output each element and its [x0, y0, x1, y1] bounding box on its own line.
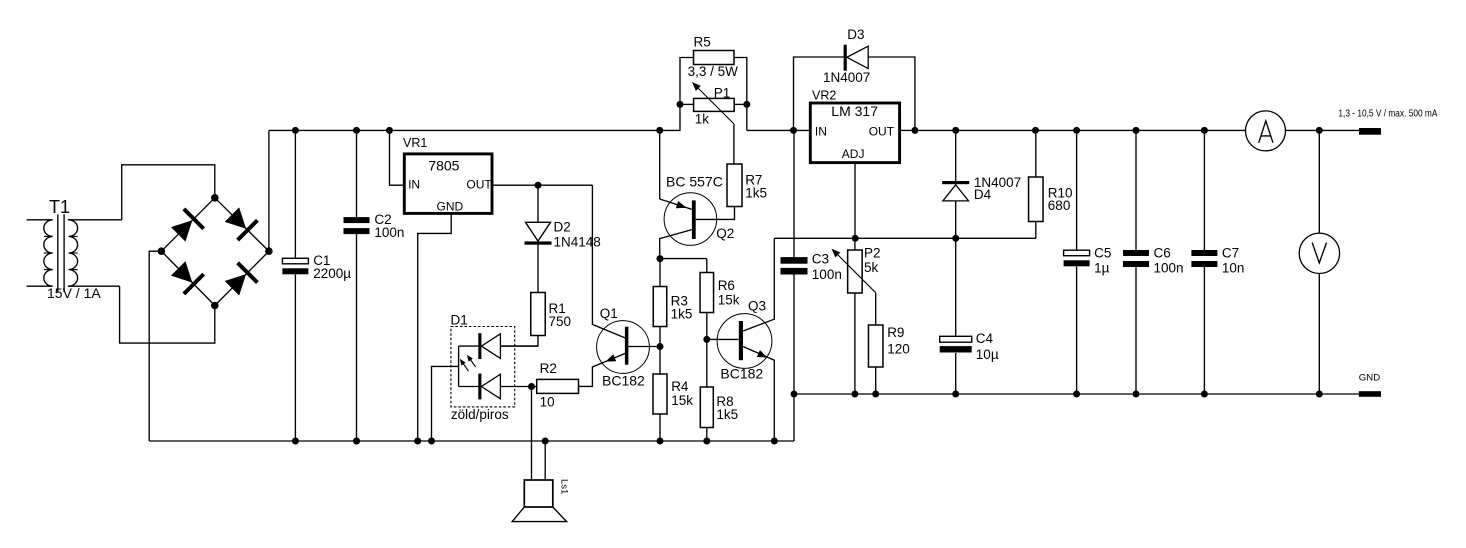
svg-text:IN: IN — [408, 178, 420, 192]
svg-text:Q2: Q2 — [716, 226, 734, 241]
svg-text:P2: P2 — [864, 245, 881, 260]
svg-text:750: 750 — [549, 314, 572, 329]
svg-text:1N4148: 1N4148 — [554, 235, 601, 250]
svg-text:D2: D2 — [554, 220, 571, 235]
svg-text:Q3: Q3 — [748, 299, 766, 314]
svg-text:10: 10 — [540, 395, 555, 410]
svg-text:680: 680 — [1048, 198, 1071, 213]
svg-text:15k: 15k — [718, 292, 740, 307]
svg-text:7805: 7805 — [428, 157, 459, 173]
svg-text:OUT: OUT — [869, 125, 895, 139]
svg-text:BC182: BC182 — [602, 373, 645, 389]
svg-text:100n: 100n — [374, 225, 404, 240]
svg-text:D3: D3 — [847, 27, 864, 42]
svg-text:C6: C6 — [1154, 246, 1171, 261]
svg-text:R4: R4 — [671, 379, 689, 394]
svg-text:1k5: 1k5 — [716, 407, 738, 422]
svg-text:LM 317: LM 317 — [831, 103, 878, 119]
svg-text:BC 557C: BC 557C — [666, 174, 723, 190]
svg-text:100n: 100n — [812, 267, 842, 282]
svg-text:D4: D4 — [974, 187, 992, 202]
svg-text:1,3 - 10,5 V / max. 500 mA: 1,3 - 10,5 V / max. 500 mA — [1338, 107, 1437, 119]
svg-text:Ls1: Ls1 — [559, 479, 570, 494]
svg-text:VR2: VR2 — [812, 89, 836, 103]
svg-text:1k5: 1k5 — [745, 185, 767, 200]
svg-text:100n: 100n — [1154, 260, 1184, 275]
svg-text:GND: GND — [437, 199, 464, 213]
svg-text:5k: 5k — [864, 260, 879, 275]
svg-text:10µ: 10µ — [976, 347, 999, 362]
svg-text:P1: P1 — [714, 85, 731, 100]
svg-text:R2: R2 — [540, 361, 557, 376]
svg-text:D1: D1 — [451, 313, 468, 328]
svg-text:15k: 15k — [671, 393, 693, 408]
svg-text:1k5: 1k5 — [671, 307, 693, 322]
svg-text:10n: 10n — [1222, 260, 1245, 275]
svg-text:Q1: Q1 — [600, 306, 618, 321]
svg-text:C4: C4 — [976, 331, 994, 346]
svg-text:VR1: VR1 — [403, 136, 427, 150]
svg-text:BC182: BC182 — [720, 366, 763, 382]
svg-text:C5: C5 — [1094, 246, 1111, 261]
svg-text:C7: C7 — [1222, 246, 1239, 261]
svg-text:T1: T1 — [49, 197, 70, 217]
svg-text:1µ: 1µ — [1094, 260, 1110, 275]
svg-text:R9: R9 — [887, 325, 904, 340]
svg-text:R5: R5 — [694, 34, 711, 49]
svg-text:OUT: OUT — [466, 178, 492, 192]
svg-text:120: 120 — [887, 341, 910, 356]
svg-text:1N4007: 1N4007 — [823, 70, 870, 85]
svg-text:GND: GND — [1359, 373, 1380, 384]
svg-text:IN: IN — [815, 125, 827, 139]
svg-text:C3: C3 — [812, 251, 829, 266]
svg-text:1k: 1k — [695, 111, 710, 126]
svg-text:15V / 1A: 15V / 1A — [47, 285, 101, 301]
svg-text:ADJ: ADJ — [842, 147, 865, 161]
svg-text:zöld/piros: zöld/piros — [451, 407, 509, 422]
svg-text:R6: R6 — [718, 278, 735, 293]
svg-text:3,3 / 5W: 3,3 / 5W — [688, 64, 739, 79]
svg-text:2200µ: 2200µ — [313, 266, 351, 281]
